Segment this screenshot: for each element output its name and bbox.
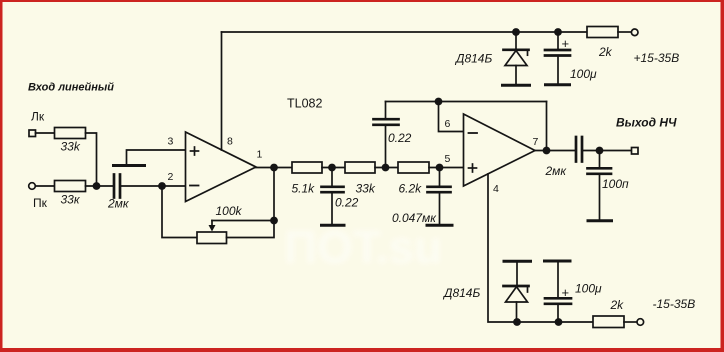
- capacitor 0.22 (shunt): [322, 168, 344, 225]
- svg-text:100μ: 100μ: [570, 67, 597, 81]
- resistor 2k (positive): [587, 27, 618, 38]
- ground (positive 100μ): [546, 83, 570, 86]
- wire: pin4 to negative rail: [488, 174, 593, 322]
- watermark: [284, 221, 442, 273]
- wire: Pk terminal to R2: [36, 185, 55, 187]
- ground (100п): [588, 219, 612, 222]
- wire: R5 to R6: [375, 167, 398, 169]
- svg-text:Выход НЧ: Выход НЧ: [616, 116, 677, 130]
- ground (0.047мк): [427, 224, 452, 227]
- wire: pin7 output to C8: [535, 150, 576, 152]
- svg-text:0.22: 0.22: [388, 131, 412, 145]
- wire: C1 to inverting input pin2: [120, 185, 186, 187]
- wire: pin3 to ground: [127, 150, 186, 164]
- wire: positive supply rail: [222, 31, 588, 33]
- capacitor 2мк (output): [576, 137, 582, 162]
- wire: wiper to output node: [212, 220, 274, 222]
- wire: pin8 to +rail: [221, 32, 223, 150]
- junction: pin5 node: [436, 164, 444, 172]
- op-amp plus input mark (U1.2): [469, 164, 477, 172]
- node output terminal: [632, 148, 639, 155]
- junction: wiper/output junction: [270, 217, 278, 225]
- svg-text:100k: 100k: [216, 204, 243, 218]
- junction: +rail zener node: [512, 28, 520, 36]
- capacitor 0.047мк: [428, 168, 451, 225]
- capacitor 100μ (positive rail): [545, 32, 570, 84]
- svg-text:33к: 33к: [61, 193, 81, 207]
- svg-text:Д814Б: Д814Б: [442, 286, 480, 300]
- op-amp U1.2 TL082: [464, 114, 536, 186]
- svg-text:2мк: 2мк: [545, 164, 568, 178]
- capacitor 2мк (input): [114, 175, 120, 198]
- capacitor 100μ (negative rail): [545, 263, 571, 323]
- wire: feedback to pin7 output: [546, 102, 548, 151]
- svg-text:7: 7: [533, 136, 539, 148]
- svg-text:3: 3: [168, 136, 174, 148]
- svg-text:1: 1: [257, 149, 263, 161]
- wire: pin2 node down to pot left: [162, 186, 197, 238]
- svg-text:5: 5: [445, 153, 451, 165]
- svg-text:TL082: TL082: [287, 97, 322, 111]
- junction: -rail zener node: [513, 318, 521, 326]
- junction: mix node: [93, 182, 101, 190]
- junction: feedback node: [435, 98, 443, 106]
- junction: R5/R6 node: [382, 164, 390, 172]
- ground (negative 100μ): [545, 260, 571, 263]
- svg-text:+: +: [562, 36, 570, 51]
- svg-text:Вход линейный: Вход линейный: [28, 82, 114, 94]
- resistor 33к (Pk): [55, 181, 86, 192]
- wire: output node down to wiper junction: [273, 168, 275, 221]
- junction: R4/R5 node: [328, 164, 336, 172]
- svg-text:2: 2: [168, 171, 174, 183]
- ground (shunt cap 0.22): [322, 224, 345, 227]
- junction: +rail cap node: [554, 28, 562, 36]
- potentiometer wiper arrow: [209, 221, 216, 232]
- ground (negative zener): [504, 260, 531, 263]
- zener diode Д814Б (negative rail): [504, 263, 529, 323]
- wire: R6 to pin5: [429, 167, 464, 169]
- svg-text:0.22: 0.22: [335, 196, 359, 210]
- wire: feedback node to pin6: [439, 102, 464, 132]
- wire: R1 to mix node: [86, 133, 97, 186]
- svg-text:100п: 100п: [602, 177, 629, 191]
- svg-text:2мк: 2мк: [107, 197, 130, 211]
- node Pk input terminal: [29, 183, 36, 190]
- junction: -rail cap node: [555, 318, 563, 326]
- op-amp plus input mark: [191, 147, 199, 155]
- svg-text:+: +: [562, 285, 570, 300]
- svg-text:2k: 2k: [598, 45, 613, 59]
- svg-text:33k: 33k: [356, 182, 376, 196]
- junction: pin1 output node: [270, 164, 278, 172]
- svg-text:4: 4: [493, 183, 499, 195]
- svg-text:+15-35В: +15-35В: [634, 51, 680, 65]
- ground (positive zener): [503, 84, 530, 87]
- svg-text:Пк: Пк: [33, 196, 48, 210]
- node Lk input terminal: [29, 130, 36, 137]
- op-amp minus input mark (U1.2): [469, 132, 478, 134]
- wire: 2k to -terminal: [624, 321, 637, 323]
- node +supply terminal: [631, 29, 638, 36]
- wire: Lk terminal to R1: [36, 132, 55, 134]
- resistor 6.2k: [398, 162, 429, 173]
- wire: 2k to +terminal: [618, 31, 631, 33]
- svg-text:Лк: Лк: [31, 110, 45, 124]
- svg-text:2k: 2k: [610, 298, 625, 312]
- wire: R4 to R5: [322, 167, 345, 169]
- node -supply terminal: [637, 319, 644, 326]
- svg-text:Д814Б: Д814Б: [454, 52, 492, 66]
- ground (pin3): [114, 164, 145, 167]
- svg-text:6: 6: [445, 118, 451, 130]
- svg-text:ПОТ.su: ПОТ.su: [284, 221, 442, 273]
- capacitor 0.22 (feedback): [374, 102, 399, 168]
- svg-text:8: 8: [227, 136, 233, 148]
- resistor 33k (Lk): [55, 128, 86, 139]
- wire: R2 to C1: [86, 185, 114, 187]
- op-amp minus input mark: [190, 185, 199, 187]
- wire: C8 to output terminal: [582, 150, 632, 152]
- svg-text:33k: 33k: [61, 140, 81, 154]
- wire: pin1 output to R4: [256, 167, 292, 169]
- zener diode Д814Б (positive rail): [504, 32, 529, 84]
- svg-text:-15-35В: -15-35В: [653, 297, 696, 311]
- capacitor 100п: [588, 151, 612, 220]
- resistor 33k (filter): [345, 162, 375, 173]
- junction: output node: [596, 147, 604, 155]
- resistor 5.1k: [292, 162, 322, 173]
- svg-text:5.1k: 5.1k: [292, 182, 316, 196]
- svg-text:6.2k: 6.2k: [399, 182, 423, 196]
- svg-text:0.047мк: 0.047мк: [392, 211, 437, 225]
- junction: pin2 node: [158, 182, 166, 190]
- op-amp U1.1 TL082: [186, 132, 257, 202]
- potentiometer 100k: [197, 232, 227, 244]
- junction: pin7 node: [543, 147, 551, 155]
- svg-text:100μ: 100μ: [575, 282, 602, 296]
- wire: pot right to output node: [227, 221, 275, 238]
- resistor 2k (negative): [593, 316, 624, 328]
- wire: feedback top: [386, 101, 547, 103]
